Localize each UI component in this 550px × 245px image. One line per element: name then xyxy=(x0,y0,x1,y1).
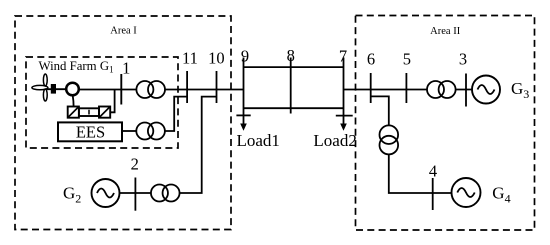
bus 3 bar xyxy=(465,74,467,107)
Load1 arrow xyxy=(243,114,245,125)
svg-text:5: 5 xyxy=(403,50,411,69)
Load2 tap bar xyxy=(336,115,353,117)
bus 1 bar xyxy=(120,74,122,105)
bus 10 bar xyxy=(216,71,218,103)
dc link xyxy=(79,108,99,116)
svg-text:EES: EES xyxy=(76,123,105,142)
Load1 tap bar xyxy=(236,114,250,116)
svg-text:Load2: Load2 xyxy=(313,131,356,150)
Wind Farm G1 dashed box xyxy=(26,57,178,148)
wind turbine shaft xyxy=(47,88,66,90)
Load2 arrow xyxy=(343,114,345,125)
transformer EES xyxy=(136,123,153,140)
generator G4 circle xyxy=(452,178,481,207)
wire generator rotor drop to converter xyxy=(72,96,75,107)
svg-text:8: 8 xyxy=(287,46,295,65)
bus 5 bar xyxy=(405,73,407,103)
wire T35 to G3 xyxy=(456,89,473,91)
EES box xyxy=(58,122,122,141)
wire vertical transformer down to bus 4 and G4 xyxy=(389,154,452,193)
transformer G2 xyxy=(151,185,168,202)
bus 8 bar xyxy=(290,58,292,114)
bus 4 bar xyxy=(432,178,434,210)
wire converter to main wire xyxy=(110,90,114,113)
bus 7 bar xyxy=(343,58,345,114)
svg-text:1: 1 xyxy=(122,59,130,78)
Area I dashed box xyxy=(15,16,231,230)
svg-text:9: 9 xyxy=(241,47,249,66)
wire generator to bus 1 and transformer T1 xyxy=(79,89,136,91)
wire bus 7 to transformer T35 xyxy=(344,89,428,91)
generator G2 circle xyxy=(92,179,120,207)
wind turbine hub xyxy=(51,84,56,94)
transformer T35 xyxy=(427,81,444,98)
converter box (rotor side) xyxy=(68,107,79,118)
converter box (grid side) xyxy=(99,107,110,118)
wind turbine blade down xyxy=(43,89,47,101)
wind turbine blade left xyxy=(32,85,48,89)
wire G2 transformer riser to bus 10 xyxy=(180,97,217,193)
wire EES transformer riser to bus 11 xyxy=(165,97,187,131)
svg-text:2: 2 xyxy=(131,155,139,174)
bus 9 bar xyxy=(243,58,245,114)
bus 11 bar xyxy=(186,71,188,103)
svg-text:3: 3 xyxy=(459,50,467,69)
svg-text:Area I: Area I xyxy=(110,25,137,36)
bus 2 bar xyxy=(134,178,136,211)
transformer T1 (wind farm) xyxy=(136,81,153,98)
wire T1 to bus 9 xyxy=(165,89,244,91)
svg-text:7: 7 xyxy=(339,47,347,66)
svg-text:6: 6 xyxy=(367,50,375,69)
wire G2 to transformer xyxy=(120,192,152,194)
transformer 6-4 (vertical) xyxy=(380,125,399,144)
wire bus 6 stub down to vertical transformer xyxy=(371,96,389,125)
Area II dashed box xyxy=(356,16,535,231)
transmission line bottom xyxy=(244,107,344,109)
svg-text:4: 4 xyxy=(429,161,437,180)
bus 6 bar xyxy=(370,73,372,103)
generator G3 circle xyxy=(472,76,500,104)
svg-text:Wind Farm G1: Wind Farm G1 xyxy=(39,59,114,75)
svg-text:10: 10 xyxy=(208,48,225,67)
generator G1 (wind) circle xyxy=(66,83,79,96)
svg-text:Area II: Area II xyxy=(430,26,461,37)
svg-text:11: 11 xyxy=(182,48,198,67)
wire EES to transformer xyxy=(122,130,136,132)
wind turbine blade up xyxy=(43,74,47,86)
svg-text:Load1: Load1 xyxy=(237,131,280,150)
transmission line top xyxy=(244,66,344,68)
